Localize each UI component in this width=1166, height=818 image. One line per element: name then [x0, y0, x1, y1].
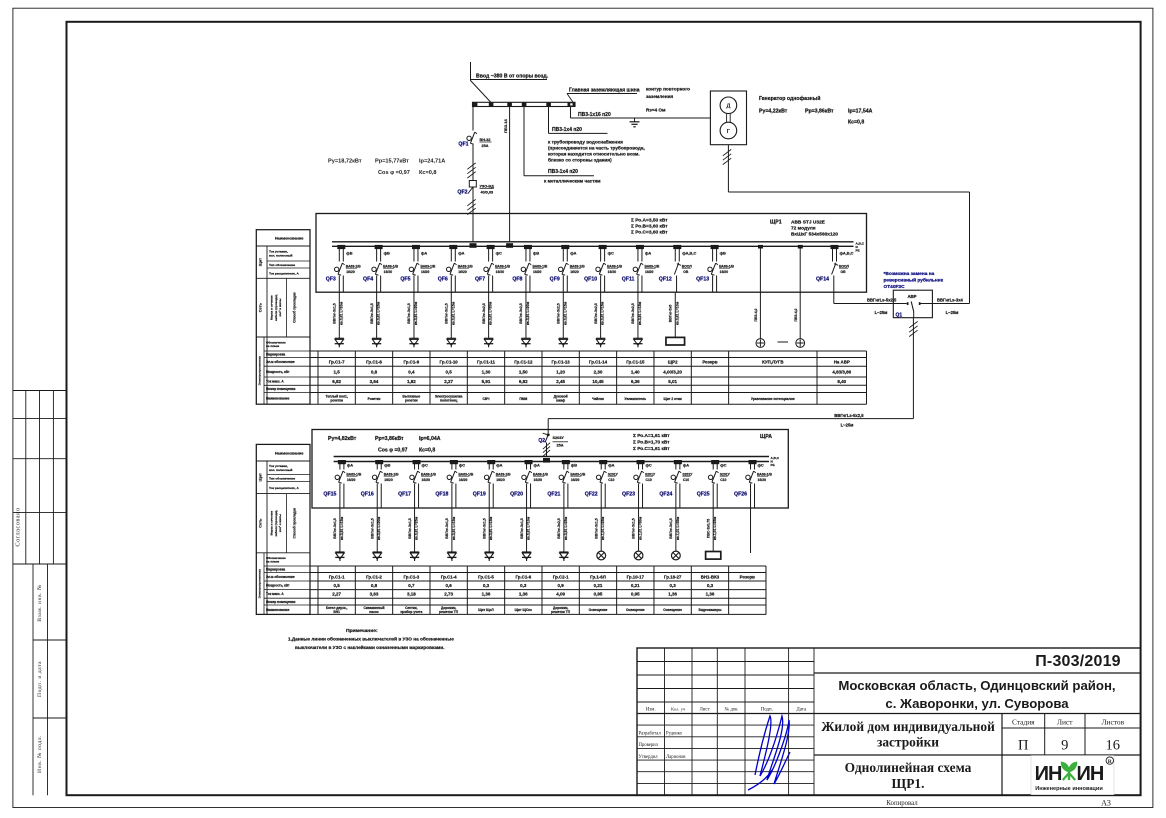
svg-text:QF4: QF4 [363, 277, 373, 283]
svg-text:16/20: 16/20 [384, 478, 393, 482]
load arrow Гр.С1-15 [633, 338, 642, 347]
svg-text:QF15: QF15 [323, 492, 336, 498]
svg-text:6,82: 6,82 [519, 379, 528, 384]
svg-text:L~25м: L~25м [841, 423, 854, 428]
svg-text:0,95: 0,95 [594, 592, 603, 597]
svg-text:фА,В,С: фА,В,С [840, 251, 854, 256]
svg-text:16/20: 16/20 [534, 478, 543, 482]
svg-text:ВА63-1/В: ВА63-1/В [570, 472, 585, 476]
svg-text:ВН-32: ВН-32 [480, 138, 491, 142]
wire: generator to АВР [723, 145, 970, 304]
svg-text:L~25м: L~25м [875, 310, 888, 315]
svg-text:ПВ3-4,0: ПВ3-4,0 [754, 308, 758, 321]
svg-text:кв.3,81 L=15м: кв.3,81 L=15м [452, 516, 456, 540]
svg-text:4,09: 4,09 [556, 592, 565, 597]
circuit breaker QF21 (фВ) [547, 460, 585, 508]
svg-text:0,95: 0,95 [631, 592, 640, 597]
svg-text:Гр.С1-11: Гр.С1-11 [477, 360, 495, 365]
svg-text:25А: 25А [557, 444, 564, 448]
svg-text:Мощность, кВт: Мощность, кВт [266, 584, 290, 588]
svg-text:Увлажнитель: Увлажнитель [624, 397, 646, 401]
svg-text:2,30: 2,30 [594, 369, 603, 374]
svg-text:ВВГнг-3х1,5: ВВГнг-3х1,5 [370, 518, 374, 539]
svg-text:Ток макс. А: Ток макс. А [266, 379, 284, 383]
svg-text:40/0,03: 40/0,03 [481, 190, 494, 194]
circuit breaker QF5 (фА) [400, 245, 436, 292]
svg-text:Руденко: Руденко [666, 732, 683, 737]
PE conductor ПВ3-1х4 to water pipe [548, 107, 645, 163]
svg-text:Ларионов: Ларионов [666, 755, 686, 760]
switch Q1 (АВР changeover) [893, 290, 932, 318]
wire to panel ЩР1 [467, 187, 475, 242]
svg-text:16/20: 16/20 [384, 270, 393, 274]
svg-text:QF5: QF5 [400, 277, 410, 283]
svg-text:ВА63-1/В: ВА63-1/В [383, 264, 398, 268]
svg-text:Рр=3,86кВт: Рр=3,86кВт [375, 436, 404, 442]
svg-text:Кс=0,8: Кс=0,8 [419, 448, 435, 454]
svg-text:16: 16 [1106, 738, 1121, 754]
svg-text:Тип обозначение: Тип обозначение [269, 476, 295, 480]
value label: panel ЩР1 type [770, 220, 838, 238]
load arrow Гр.С1-3 [410, 552, 419, 561]
svg-text:АВВ SТJ U32Е: АВВ SТJ U32Е [791, 220, 826, 226]
svg-text:Инв. № подл.: Инв. № подл. [37, 735, 43, 773]
svg-text:ОТ40F3С: ОТ40F3С [884, 284, 906, 290]
svg-text:Щит: Щит [258, 473, 263, 481]
svg-text:кол. полюсный: кол. полюсный [269, 254, 292, 258]
cable ВВГнг-3х2,5 Гр.С1-12 [519, 292, 530, 338]
svg-text:Взам. инв. №: Взам. инв. № [37, 584, 43, 622]
svg-text:которая находится относительно: которая находится относительно возм. [548, 152, 640, 157]
cable ВВГнг-3х2,5 Гр.С2-1 [557, 508, 568, 552]
svg-text:QF18: QF18 [435, 492, 448, 498]
svg-text:QF7: QF7 [475, 277, 485, 283]
svg-text:S201У: S201У [645, 472, 656, 476]
svg-text:Ру=4,82кВт: Ру=4,82кВт [328, 436, 357, 442]
svg-text:Щит 2 этаж: Щит 2 этаж [664, 397, 683, 401]
svg-text:кв.3,81 L=10м: кв.3,81 L=10м [527, 516, 531, 540]
svg-text:ПВ3-1х16 п20: ПВ3-1х16 п20 [578, 112, 611, 118]
svg-text:№ док: № док [724, 707, 738, 713]
svg-text:к трубопроводу водоснабжения: к трубопроводу водоснабжения [548, 139, 623, 145]
svg-text:полотенец: полотенец [440, 399, 457, 403]
svg-text:Ру=18,72кВт: Ру=18,72кВт [328, 159, 362, 165]
svg-text:0,8: 0,8 [371, 369, 378, 374]
svg-text:ВН1: ВН1 [333, 610, 340, 614]
svg-text:кв.3,81 L=25м: кв.3,81 L=25м [377, 301, 381, 325]
svg-text:фС: фС [608, 251, 614, 256]
svg-text:3,18: 3,18 [407, 592, 416, 597]
svg-text:ВА63-1/В: ВА63-1/В [384, 472, 399, 476]
panel ЩРА enclosure [312, 430, 788, 509]
svg-text:0,5: 0,5 [334, 583, 341, 588]
svg-text:0,7: 0,7 [408, 583, 415, 588]
svg-text:ВВГнг-3х1,5: ВВГнг-3х1,5 [594, 518, 598, 539]
svg-text:кв.3,81 L=25м: кв.3,81 L=25м [415, 516, 419, 540]
svg-text:Сеть: Сеть [258, 518, 263, 528]
svg-text:2,73: 2,73 [444, 592, 453, 597]
svg-text:S201У: S201У [720, 472, 731, 476]
lamp load Гр.10-17 освещение [634, 551, 643, 560]
cable ВВГнг-3х1,5 Гр.С1-7 [333, 292, 344, 338]
svg-text:QF24: QF24 [659, 492, 672, 498]
load arrow Гр.С1-10 [447, 338, 456, 347]
wire: АВР to ЩРА, cable ВВГнгLs-5х2,5 L=25м [548, 318, 917, 433]
svg-text:Электроприемники: Электроприемники [258, 569, 262, 599]
cable ВВГнг-3х1,5 Гр.С1-9 [407, 292, 418, 338]
svg-text:розетки: розетки [405, 399, 418, 403]
svg-text:ВА63-1/В: ВА63-1/В [757, 472, 772, 476]
load arrow Гр.С2-1 [559, 552, 568, 561]
svg-text:контур повторного: контур повторного [646, 87, 690, 92]
svg-text:с. Жаворонки, ул. Суворова: с. Жаворонки, ул. Суворова [885, 696, 1069, 711]
svg-text:Ввод ~380 В от опоры возд.: Ввод ~380 В от опоры возд. [476, 74, 549, 80]
svg-text:Согласовано: Согласовано [14, 507, 21, 546]
svg-text:Резерв: Резерв [740, 574, 756, 579]
svg-text:на плане: на плане [266, 344, 280, 348]
svg-text:0,21: 0,21 [594, 583, 603, 588]
svg-text:На АВР: На АВР [834, 360, 850, 365]
svg-text:ВВГнг-3х2,5: ВВГнг-3х2,5 [482, 303, 486, 324]
svg-text:кв.3,81 L=20м: кв.3,81 L=20м [489, 301, 493, 325]
svg-text:ПВ3-16: ПВ3-16 [503, 118, 508, 133]
cable ВВГнг-3х2,5 Гр.С1-13 [556, 292, 567, 338]
svg-text:ВА63-1/В: ВА63-1/В [346, 264, 361, 268]
svg-text:АВР: АВР [907, 294, 916, 299]
svg-text:1,36: 1,36 [706, 592, 715, 597]
svg-text:насос: насос [369, 610, 379, 614]
cable ВВГнг-3х1,5 Гр.10-17 [632, 508, 643, 551]
wire: link between terminals [778, 341, 789, 343]
svg-text:1,36: 1,36 [668, 592, 677, 597]
svg-text:кол² и жилы: кол² и жилы [278, 514, 282, 533]
svg-text:Розетки: Розетки [368, 397, 381, 401]
svg-text:ВВГнг-3х1,5: ВВГнг-3х1,5 [333, 303, 337, 324]
svg-text:Σ Ро.С=1,61 кВт: Σ Ро.С=1,61 кВт [633, 446, 670, 452]
svg-text:кв.3,81 L=15м: кв.3,81 L=15м [489, 516, 493, 540]
svg-text:кв.1,01 L=30м: кв.1,01 L=30м [639, 516, 643, 540]
svg-text:Q2: Q2 [538, 438, 545, 444]
svg-text:ВхШхГ 534х560х120: ВхШхГ 534х560х120 [791, 232, 838, 238]
svg-text:КУП,ЛУГВ: КУП,ЛУГВ [762, 360, 783, 365]
svg-text:Q1: Q1 [896, 313, 903, 319]
svg-text:Гр.С1-6: Гр.С1-6 [515, 574, 531, 579]
svg-text:ВА63-1/В: ВА63-1/В [495, 264, 510, 268]
svg-text:ВА63-1/В: ВА63-1/В [420, 264, 435, 268]
circuit breaker QF12 (фА,В,С) [659, 245, 697, 292]
value label: input power data [328, 159, 445, 177]
svg-text:QF1: QF1 [458, 142, 468, 148]
svg-text:С10: С10 [720, 478, 726, 482]
load: panel ЩР2 [666, 337, 685, 345]
svg-text:Iр=17,54А: Iр=17,54А [848, 109, 873, 115]
svg-text:QF19: QF19 [473, 492, 486, 498]
svg-text:2,45: 2,45 [556, 379, 565, 384]
svg-text:Щит ЩСпс: Щит ЩСпс [515, 608, 533, 612]
svg-text:QF17: QF17 [398, 492, 411, 498]
svg-text:Номер помещения: Номер помещения [266, 387, 295, 391]
svg-text:PE: PE [856, 249, 860, 253]
svg-text:16/20: 16/20 [459, 478, 468, 482]
cable ВВГнг-3х1,5 Гр.С1-6 [520, 508, 531, 552]
svg-text:кол² и жилы: кол² и жилы [278, 298, 282, 317]
svg-text:2,27: 2,27 [332, 592, 341, 597]
svg-text:16/20: 16/20 [570, 270, 579, 274]
svg-text:кв.3,81 L=25м: кв.3,81 L=25м [564, 516, 568, 540]
svg-text:ПВ3-1х4 п20: ПВ3-1х4 п20 [548, 169, 578, 175]
cable ВВГнг-3х1,5 Гр.С1-3 [408, 508, 419, 552]
svg-text:кв.3,81 L=15м: кв.3,81 L=15м [340, 516, 344, 540]
svg-text:решетки ТП: решетки ТП [551, 610, 571, 614]
svg-text:ВВГнг-3х1,5: ВВГнг-3х1,5 [370, 303, 374, 324]
cable ВВГнг-3х1,5 Гр.С1-5 [482, 508, 493, 552]
svg-text:фВ: фВ [571, 463, 577, 468]
svg-text:16/20: 16/20 [533, 270, 542, 274]
svg-text:ВВГнгLs-5х2,5: ВВГнгLs-5х2,5 [867, 297, 897, 302]
svg-text:Освещение: Освещение [663, 608, 682, 612]
svg-text:2,27: 2,27 [444, 379, 453, 384]
svg-text:ВА63-1/В: ВА63-1/В [719, 264, 734, 268]
load arrow Гр.С1-12 [521, 338, 530, 347]
svg-text:ВВГнг-3х1,5: ВВГнг-3х1,5 [520, 518, 524, 539]
svg-text:Гр.С1-13: Гр.С1-13 [552, 360, 571, 365]
cable ВВГнг-3х1,5 Гр.С1-2 [370, 508, 381, 552]
svg-text:кв.3,81 L=15м: кв.3,81 L=15м [601, 301, 605, 325]
svg-text:на плане: на плане [266, 559, 280, 563]
svg-text:ВООЛ: ВООЛ [839, 264, 850, 268]
svg-text:близко со стороны здания): близко со стороны здания) [548, 157, 612, 163]
circuit breaker QF10 (фС) [584, 245, 622, 292]
svg-text:кв.3,81 L=15м: кв.3,81 L=15м [451, 301, 455, 325]
svg-text:QF22: QF22 [585, 492, 598, 498]
svg-text:QF23: QF23 [622, 492, 635, 498]
svg-text:фА: фА [496, 463, 502, 468]
circuit breaker QF19 (фА) [473, 460, 511, 508]
svg-text:Iр=6,04А: Iр=6,04А [419, 436, 441, 442]
svg-text:Резерв: Резерв [702, 360, 718, 365]
RCD QF2 40/0,03 [457, 181, 494, 196]
svg-text:Гр.10-17: Гр.10-17 [627, 574, 645, 579]
load arrow Гр.С1-6 [522, 552, 531, 561]
svg-text:0,8: 0,8 [371, 583, 378, 588]
svg-text:(присоединяется на часть трубо: (присоединяется на часть трубопровода, [548, 145, 645, 151]
circuit breaker QF25 (фС) [697, 460, 731, 508]
svg-text:П-303/2019: П-303/2019 [1035, 653, 1121, 670]
circuit breaker QF22 (фА) [585, 460, 619, 508]
svg-text:С10: С10 [608, 478, 614, 482]
svg-text:0,5: 0,5 [446, 369, 453, 374]
svg-text:Мощность, кВт: Мощность, кВт [266, 370, 290, 374]
svg-text:Разработал: Разработал [639, 732, 662, 737]
bus ЩР1 [332, 241, 865, 252]
svg-text:Гр.С1-12: Гр.С1-12 [514, 360, 533, 365]
svg-text:Гр.С1-10: Гр.С1-10 [440, 360, 459, 365]
svg-text:ВВГнг-3х1,5: ВВГнг-3х1,5 [408, 518, 412, 539]
cable ВВГнг-3х1,5 Гр.18-27 [669, 508, 680, 551]
svg-text:фС: фС [422, 463, 428, 468]
circuit breaker QF4 (фВ) [363, 245, 399, 292]
PE tap ПВ3-4,0 [754, 245, 763, 339]
svg-text:PE: PE [771, 463, 775, 467]
svg-text:кв.3,81 L=20м: кв.3,81 L=20м [414, 301, 418, 325]
svg-text:Σ Ро.В=3,60 кВт: Σ Ро.В=3,60 кВт [631, 224, 668, 230]
svg-text:Листов: Листов [1102, 718, 1125, 727]
svg-text:Σ Ро.А=3,50 кВт: Σ Ро.А=3,50 кВт [631, 218, 668, 224]
svg-text:1,50: 1,50 [519, 369, 528, 374]
svg-text:Наименование: Наименование [266, 608, 290, 612]
svg-text:Маркировка: Маркировка [266, 568, 285, 572]
circuit breaker QF23 (фС) [622, 460, 656, 508]
lamp load Гр.18-27 освещение [671, 551, 680, 560]
svg-text:Копировал: Копировал [886, 800, 918, 807]
svg-text:0,6: 0,6 [446, 583, 453, 588]
load arrow Гр.С1-13 [559, 338, 568, 347]
svg-text:кв.3,81 L=20м: кв.3,81 L=20м [377, 516, 381, 540]
svg-text:16/20: 16/20 [571, 478, 580, 482]
circuit breaker QF7 (фС) [475, 245, 511, 292]
svg-text:ЩР2: ЩР2 [668, 360, 678, 365]
svg-text:Гр.С2-1: Гр.С2-1 [553, 574, 569, 579]
circuit breaker QF26 (фС) [734, 460, 772, 508]
svg-text:ВВГнг-3х1,5: ВВГнг-3х1,5 [333, 518, 337, 539]
svg-text:Кс=0,8: Кс=0,8 [848, 120, 864, 126]
svg-text:фА: фА [421, 251, 427, 256]
svg-text:Освещение: Освещение [589, 608, 608, 612]
svg-text:3,63: 3,63 [370, 592, 379, 597]
svg-text:Гр.18-27: Гр.18-27 [664, 574, 682, 579]
svg-text:ВА63-1/В: ВА63-1/В [346, 472, 361, 476]
svg-text:ПВ3-1х4 п20: ПВ3-1х4 п20 [552, 127, 582, 133]
svg-text:ВООЛ: ВООЛ [682, 264, 693, 268]
PE conductor ПВ3-16 to panel ЩР1 [503, 107, 510, 242]
svg-text:QF16: QF16 [361, 492, 374, 498]
svg-text:0,9: 0,9 [558, 583, 565, 588]
cable ВВГнг-3х2,5 Гр.С1-14 [594, 292, 605, 338]
svg-text:Стадия: Стадия [1012, 718, 1035, 727]
load arrow Гр.С1-4 [447, 552, 456, 561]
svg-text:1,82: 1,82 [407, 379, 416, 384]
svg-text:Освещение: Освещение [626, 608, 645, 612]
bus ГЗШ (главная заземляющая шина) [473, 102, 576, 106]
svg-text:ПММ: ПММ [519, 397, 527, 401]
svg-text:Однолинейная схема: Однолинейная схема [845, 760, 972, 775]
junction: Q2 to bus [543, 458, 550, 463]
svg-text:Ток расцепителя, А: Ток расцепителя, А [269, 272, 299, 276]
circuit breaker QF11 (фА) [622, 245, 660, 292]
svg-text:QF13: QF13 [696, 277, 709, 283]
svg-text:8,40: 8,40 [837, 379, 846, 384]
svg-text:ВВГнг-3х1,5: ВВГнг-3х1,5 [632, 518, 636, 539]
svg-text:шкаф: шкаф [556, 399, 565, 403]
svg-text:72 модуля: 72 модуля [791, 226, 816, 232]
load arrow Гр.С1-1 [335, 552, 344, 561]
svg-text:Номер помещения: Номер помещения [266, 600, 295, 604]
svg-text:Генератор однофазный: Генератор однофазный [759, 95, 820, 102]
svg-text:ВВГнг-3х1,5: ВВГнг-3х1,5 [445, 518, 449, 539]
svg-text:С10: С10 [646, 478, 652, 482]
svg-text:QF25: QF25 [697, 492, 710, 498]
svg-text:ПВ3-4,0: ПВ3-4,0 [794, 308, 798, 321]
circuit breaker QF20 (фА) [510, 460, 548, 508]
svg-text:6,82: 6,82 [332, 379, 341, 384]
svg-text:L~25м: L~25м [946, 310, 959, 315]
node: panel name ЩРА [760, 434, 772, 440]
svg-text:Примечание:: Примечание: [346, 628, 378, 634]
svg-text:QF8: QF8 [512, 277, 522, 283]
svg-text:Ток расцепителя, А: Ток расцепителя, А [269, 486, 299, 490]
svg-text:ВА63-1/В: ВА63-1/В [458, 472, 473, 476]
svg-text:*Возможна замена на: *Возможна замена на [884, 271, 935, 277]
svg-text:Тип обозначение: Тип обозначение [269, 263, 295, 267]
svg-text:кол. полюсный: кол. полюсный [269, 468, 292, 472]
svg-text:фА: фА [534, 463, 540, 468]
bus ЩРА [334, 456, 780, 467]
svg-text:1,36: 1,36 [519, 592, 528, 597]
svg-text:Σ Ро.С=3,60 кВт: Σ Ро.С=3,60 кВт [631, 230, 668, 236]
svg-text:Гр.С1-14: Гр.С1-14 [589, 360, 608, 365]
svg-text:0,21: 0,21 [631, 583, 640, 588]
circuit breaker QF16 (фВ) [361, 460, 399, 508]
svg-text:ВВГнгLs-3х4: ВВГнгLs-3х4 [937, 297, 964, 302]
svg-text:16/20: 16/20 [720, 270, 729, 274]
svg-text:1,30: 1,30 [482, 369, 491, 374]
svg-text:П: П [1018, 738, 1029, 754]
svg-text:прибор учета: прибор учета [400, 610, 422, 614]
PE conductor ПВ3-1х4 to metal parts [524, 107, 601, 184]
svg-text:6,36: 6,36 [631, 379, 640, 384]
svg-text:фС: фС [720, 463, 726, 468]
svg-text:ЩР1.: ЩР1. [892, 776, 925, 791]
value label: generator data [759, 95, 873, 126]
svg-text:Cos φ =0,97: Cos φ =0,97 [378, 170, 410, 176]
svg-text:фС: фС [459, 463, 465, 468]
PE conductor ПВ3-1х16 to re-earthing loop and generator [571, 107, 711, 119]
svg-text:ВВГнг-3х1,5: ВВГнг-3х1,5 [669, 518, 673, 539]
node: ГЗШ callout label [567, 88, 640, 103]
svg-text:кв.3,81 L=15м: кв.3,81 L=15м [638, 301, 642, 325]
value label: ЩР1 phase loads [631, 218, 668, 236]
svg-text:Гр.С1-4: Гр.С1-4 [441, 574, 457, 579]
junction: incoming to bus [470, 243, 514, 248]
svg-text:ВВГнг-3х1,5: ВВГнг-3х1,5 [407, 303, 411, 324]
svg-text:СВЧ: СВЧ [483, 397, 491, 401]
svg-text:ВН1-ВК3: ВН1-ВК3 [701, 574, 720, 579]
svg-text:фС: фС [496, 251, 502, 256]
svg-text:QF21: QF21 [547, 492, 560, 498]
svg-text:ВА63-1/В: ВА63-1/В [533, 472, 548, 476]
svg-text:ПВС-3х0,75: ПВС-3х0,75 [706, 519, 710, 538]
svg-text:ВА63-1/В: ВА63-1/В [644, 264, 659, 268]
svg-text:Ток макс. А: Ток макс. А [266, 592, 284, 596]
cable ВВГнг-3х2,5 Гр.С1-11 [482, 292, 493, 338]
svg-text:Жилой дом индивидуальной: Жилой дом индивидуальной [821, 719, 995, 734]
svg-text:Iр=24,71А: Iр=24,71А [419, 159, 445, 165]
svg-text:реверсивный рубильник: реверсивный рубильник [884, 277, 944, 284]
svg-text:Наименование: Наименование [275, 451, 304, 456]
svg-text:16/20: 16/20 [421, 270, 430, 274]
svg-text:1,5: 1,5 [334, 369, 341, 374]
load: видеокамеры ВН1-ВК3 [706, 552, 721, 560]
panel ЩР1 enclosure [316, 214, 867, 293]
svg-text:ВВГнг-3х2,5: ВВГнг-3х2,5 [557, 518, 561, 539]
generator G1 однофазный [710, 91, 746, 145]
svg-text:ВА63-1/В: ВА63-1/В [421, 472, 436, 476]
wire: from ГЗШ down to QF1 [472, 107, 474, 132]
load table ЩР1 data [310, 351, 867, 404]
svg-text:ИН: ИН [1077, 763, 1104, 785]
svg-text:заземления: заземления [646, 94, 673, 99]
svg-text:Утвердил: Утвердил [639, 755, 659, 760]
